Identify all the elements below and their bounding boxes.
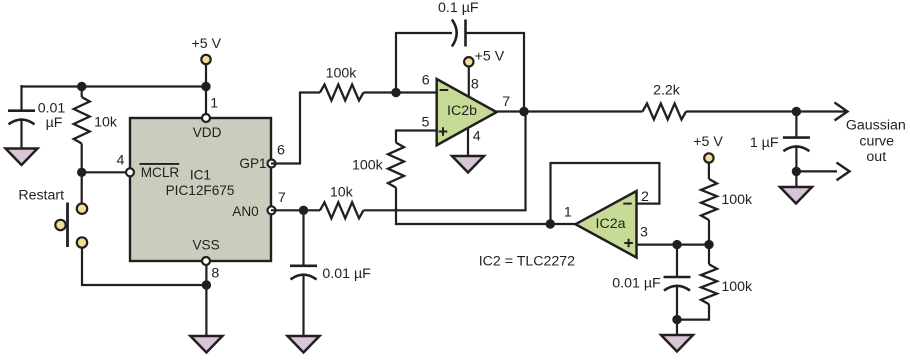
svg-text:6: 6 bbox=[422, 73, 430, 89]
wire C4 leads bbox=[676, 245, 678, 277]
pushbutton S1 button cap bbox=[55, 220, 65, 230]
IC1 MCLR overline bbox=[139, 163, 179, 165]
junction dot AN0 node bbox=[299, 206, 308, 215]
capacitor C2 0.1 uF bbox=[452, 20, 457, 47]
svg-text:2.2k: 2.2k bbox=[653, 83, 681, 99]
svg-text:Gaussian: Gaussian bbox=[846, 118, 906, 134]
wire GP1 to R2 bbox=[271, 93, 320, 164]
svg-text:10k: 10k bbox=[330, 185, 354, 201]
junction dot rail/R1 bbox=[77, 82, 86, 91]
ground under C3 bbox=[288, 336, 320, 353]
wire R3 to IC2a output net bbox=[396, 188, 576, 224]
svg-text:PIC12F675: PIC12F675 bbox=[166, 183, 235, 198]
resistor R5 100k bbox=[701, 179, 717, 220]
capacitor C1 0.01 uF bbox=[8, 109, 35, 112]
svg-text:4: 4 bbox=[117, 153, 125, 169]
svg-text:GP1: GP1 bbox=[239, 156, 266, 171]
wire VSS pin to ground bbox=[205, 261, 207, 337]
+5 V supply 1 terminal bbox=[201, 55, 210, 64]
ground under VSS bbox=[190, 336, 222, 353]
junction dot inverting node bbox=[391, 88, 400, 97]
wire switch to VSS net bbox=[82, 248, 206, 286]
svg-text:VSS: VSS bbox=[192, 238, 219, 253]
wire C1 bottom lead bbox=[20, 120, 22, 150]
pushbutton S1 actuator bar bbox=[66, 203, 69, 248]
svg-text:0.1 µF: 0.1 µF bbox=[438, 0, 479, 16]
ground under C1 bbox=[6, 149, 38, 166]
junction dot +5V rail bbox=[201, 82, 210, 91]
wire R1 to MCLR node bbox=[81, 144, 83, 173]
wire C5 top lead bbox=[795, 112, 797, 138]
resistor R3 100k bbox=[388, 143, 404, 188]
wire C3 to ground bbox=[302, 275, 304, 337]
wire C1 top lead bbox=[20, 85, 22, 111]
wire divider to R6 bbox=[708, 245, 710, 265]
wire C5 to ground bbox=[795, 147, 797, 188]
wire IC2a feedback loop bbox=[551, 163, 660, 224]
svg-text:+5 V: +5 V bbox=[693, 134, 723, 150]
output arrow 1 bbox=[835, 103, 848, 121]
svg-text:2: 2 bbox=[641, 189, 649, 205]
svg-text:MCLR: MCLR bbox=[141, 165, 180, 180]
pushbutton S1 bottom terminal bbox=[77, 237, 87, 247]
svg-text:7: 7 bbox=[502, 94, 510, 110]
svg-text:0.01 µF: 0.01 µF bbox=[322, 266, 371, 282]
ground under C5 bbox=[780, 187, 812, 204]
svg-text:100k: 100k bbox=[326, 66, 358, 82]
resistor R6 100k bbox=[701, 264, 717, 304]
+5 V supply 2 terminal bbox=[464, 57, 473, 66]
wire +5V to R5 bbox=[708, 163, 710, 179]
svg-text:Restart: Restart bbox=[18, 187, 64, 203]
svg-text:VDD: VDD bbox=[193, 125, 222, 140]
wire to output arrow 2 bbox=[796, 170, 837, 172]
svg-text:10k: 10k bbox=[94, 114, 118, 130]
IC1 pin 1 circle bbox=[202, 114, 210, 122]
IC2a plus sign bbox=[624, 239, 633, 248]
IC1 pin 8 circle bbox=[202, 257, 210, 265]
wire C2 to output net bbox=[466, 33, 525, 112]
junction dot C4 top bbox=[672, 240, 681, 249]
IC2b plus sign bbox=[439, 127, 448, 136]
wire R2 to IC2b inverting input bbox=[364, 91, 438, 93]
IC1 pin 6 circle bbox=[268, 160, 276, 168]
capacitor C3 0.01 uF bbox=[290, 264, 317, 267]
svg-text:IC2 = TLC2272: IC2 = TLC2272 bbox=[479, 254, 575, 270]
resistor R4 10k bbox=[320, 202, 363, 218]
svg-text:4: 4 bbox=[473, 128, 481, 144]
wire MCLR node to switch bbox=[81, 172, 83, 204]
svg-text:8: 8 bbox=[471, 77, 479, 93]
junction dot MCLR node bbox=[77, 168, 86, 177]
wire IC2b pin 5 bbox=[396, 131, 437, 143]
svg-text:3: 3 bbox=[640, 224, 648, 240]
svg-text:+5 V: +5 V bbox=[192, 36, 222, 52]
svg-text:100k: 100k bbox=[352, 158, 384, 174]
svg-text:1: 1 bbox=[210, 95, 218, 111]
svg-text:8: 8 bbox=[211, 265, 219, 281]
pushbutton S1 top terminal bbox=[77, 204, 87, 214]
wire C4 bottom lead bbox=[676, 286, 678, 336]
wire inverting node to C2 bbox=[396, 33, 452, 93]
svg-text:7: 7 bbox=[278, 190, 286, 206]
junction dot VSS net bbox=[202, 280, 211, 289]
op-amp IC2a body bbox=[576, 191, 637, 258]
svg-text:IC2b: IC2b bbox=[447, 103, 477, 119]
svg-text:µF: µF bbox=[46, 115, 63, 131]
capacitor C5 1 uF bbox=[783, 136, 810, 139]
wire IC2b output bbox=[497, 110, 643, 112]
IC1 pin 7 circle bbox=[268, 206, 276, 214]
wire IC2b pin 4 to ground bbox=[467, 128, 469, 158]
resistor R7 2.2k bbox=[643, 104, 687, 120]
svg-text:100k: 100k bbox=[721, 192, 753, 208]
wire R7 to output arrow bbox=[686, 110, 846, 112]
wire C3 top lead bbox=[302, 210, 304, 265]
wire AN0 to R4 bbox=[271, 209, 320, 211]
svg-text:AN0: AN0 bbox=[232, 204, 259, 219]
svg-text:0.01 µF: 0.01 µF bbox=[612, 275, 661, 291]
junction dot ground node bbox=[672, 315, 681, 324]
ground under C4 bbox=[661, 335, 693, 352]
svg-text:6: 6 bbox=[277, 142, 285, 158]
resistor R1 10k bbox=[74, 97, 90, 144]
wire R4 to output net bbox=[364, 112, 526, 211]
svg-text:curve: curve bbox=[859, 133, 894, 149]
svg-text:1 µF: 1 µF bbox=[750, 135, 779, 151]
wire +5V to VDD pin 1 bbox=[205, 64, 207, 118]
junction dot IC2b output bbox=[519, 107, 528, 116]
resistor R2 100k bbox=[320, 85, 363, 101]
resistor R1 10k top lead wire bbox=[81, 87, 83, 98]
svg-text:5: 5 bbox=[421, 115, 429, 131]
svg-text:0.01: 0.01 bbox=[38, 100, 66, 116]
wire R5 to divider node bbox=[708, 220, 710, 245]
svg-text:IC1: IC1 bbox=[190, 168, 211, 183]
junction dot output node bbox=[792, 107, 801, 116]
op-amp IC2b body bbox=[437, 79, 497, 145]
wire top-left +5V rail bbox=[22, 85, 207, 87]
IC1 PIC12F675 body bbox=[130, 118, 271, 261]
svg-text:out: out bbox=[866, 149, 886, 165]
output arrow 2 bbox=[837, 163, 850, 181]
svg-text:100k: 100k bbox=[721, 279, 753, 295]
wire +5V to IC2b pin 8 bbox=[468, 67, 470, 98]
wire MCLR node to pin 4 bbox=[82, 171, 130, 173]
IC2a minus sign bbox=[623, 203, 631, 205]
svg-text:+5 V: +5 V bbox=[475, 48, 505, 64]
svg-text:IC2a: IC2a bbox=[596, 216, 626, 232]
+5 V supply 3 terminal bbox=[704, 153, 713, 162]
IC2b minus sign bbox=[440, 89, 449, 91]
wire IC2a pin 3 bbox=[637, 244, 710, 246]
svg-text:1: 1 bbox=[564, 204, 572, 220]
IC1 pin 4 circle bbox=[126, 168, 134, 176]
capacitor C4 0.01 uF bbox=[664, 276, 691, 279]
wire IC2a output to node bbox=[546, 219, 555, 228]
ground IC2b pin 4 bbox=[452, 156, 484, 173]
junction dot C5 bottom bbox=[792, 167, 801, 176]
junction dot divider bbox=[704, 240, 713, 249]
wire R6 to ground node bbox=[677, 304, 709, 319]
